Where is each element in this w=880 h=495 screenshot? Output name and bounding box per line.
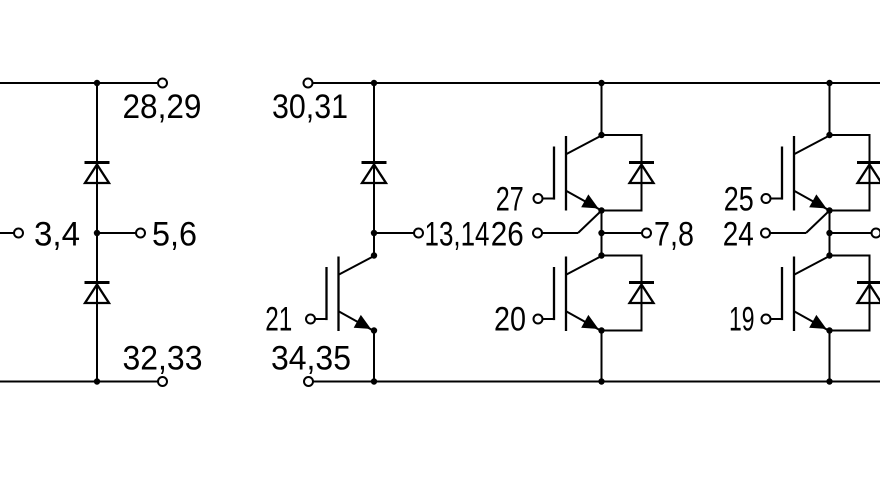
node mid phase junction [598, 230, 604, 236]
diode D7 (right lower freewheel) [857, 283, 880, 304]
wire right leg vertical top [829, 83, 831, 135]
wire stub right midpoint to edge terminal [830, 232, 872, 234]
wire right bottom diode branch [830, 256, 870, 331]
wire left leg vertical [96, 83, 98, 382]
diode D2 (left leg lower) [85, 283, 110, 304]
node mid bottom junction [598, 378, 604, 384]
node right collector-top junction [826, 132, 832, 138]
svg-text:27: 27 [496, 181, 524, 219]
wire stub terminal 3,4 [0, 232, 14, 234]
terminal 34,35 [304, 377, 313, 386]
svg-text:30,31: 30,31 [272, 88, 348, 126]
node right emitter-top junction [826, 207, 832, 213]
IGBT Q1 brake (gate 21) [306, 256, 374, 331]
terminal 30,31 [304, 79, 313, 88]
node mid top junction [598, 80, 604, 86]
diode D6 (right upper freewheel) [857, 163, 880, 184]
IGBT Q3 mid bottom (gate 20) [534, 256, 602, 331]
node brake mid junction 13,14 [371, 230, 377, 236]
node brake top junction [371, 80, 377, 86]
svg-text:20: 20 [494, 301, 526, 339]
wire brake leg vertical lower [373, 331, 375, 382]
node mid emitter-bottom junction [598, 327, 604, 333]
node left-leg bottom junction [94, 378, 100, 384]
IGBT Q4 right top (gate 25) [762, 136, 830, 211]
node right top junction [826, 80, 832, 86]
svg-text:7,8: 7,8 [654, 216, 694, 254]
terminal 28,29 [158, 79, 167, 88]
IGBT Q2 mid top (gate 27) [534, 136, 602, 211]
svg-text:28,29: 28,29 [123, 88, 202, 126]
diode D1 (left leg upper) [85, 163, 110, 184]
diode D4 (mid upper freewheel) [629, 163, 654, 184]
node right bottom junction [826, 378, 832, 384]
node mid collector-top junction [598, 132, 604, 138]
svg-text:13,14: 13,14 [425, 216, 490, 254]
wire mid leg vertical bottom [601, 331, 603, 382]
wire right leg vertical middle [829, 211, 831, 256]
terminal right phase (edge) [872, 229, 880, 238]
svg-text:34,35: 34,35 [271, 340, 351, 378]
terminal 7,8 [642, 229, 651, 238]
kelvin-emitter lead 24 [761, 212, 829, 238]
svg-text:24: 24 [723, 216, 754, 254]
kelvin-emitter lead 26 [533, 212, 601, 238]
svg-text:3,4: 3,4 [34, 216, 80, 254]
wire top rail (+) from terminal 30,31 [313, 82, 880, 84]
node brake collector junction [371, 252, 377, 258]
wire stub node to terminal 5,6 [97, 232, 136, 234]
terminal 13,14 [414, 229, 423, 238]
node right emitter-bottom junction [826, 327, 832, 333]
terminal 5,6 [136, 229, 145, 238]
svg-text:26: 26 [491, 216, 524, 254]
wire top-left rail to terminal 28,29 [0, 82, 158, 84]
node brake emitter junction [371, 327, 377, 333]
wire brake leg vertical upper [373, 83, 375, 256]
terminal 32,33 [158, 377, 167, 386]
node left-leg top junction [94, 80, 100, 86]
wire bottom-left rail to terminal 32,33 [0, 381, 158, 383]
wire mid top diode branch [602, 135, 642, 211]
wire right leg vertical bottom [829, 331, 831, 382]
diode D5 (mid lower freewheel) [629, 283, 654, 304]
node right collector-bottom junction [826, 252, 832, 258]
IGBT Q5 right bottom (gate 19) [762, 256, 830, 331]
node brake bottom junction [371, 378, 377, 384]
node left-leg mid junction [94, 230, 100, 236]
node mid emitter-top junction [598, 207, 604, 213]
terminal 3,4 [14, 229, 23, 238]
wire mid leg vertical top [601, 83, 603, 135]
svg-text:19: 19 [729, 301, 755, 339]
wire right top diode branch [830, 135, 870, 211]
svg-text:21: 21 [265, 301, 292, 339]
node right phase junction [826, 230, 832, 236]
svg-text:25: 25 [724, 181, 754, 219]
svg-text:32,33: 32,33 [123, 340, 203, 378]
wire bottom rail (-) from terminal 34,35 [313, 381, 880, 383]
wire stub midpoint to terminal 7,8 [602, 232, 643, 234]
svg-text:5,6: 5,6 [152, 216, 197, 254]
diode D3 (brake leg) [362, 163, 387, 184]
wire mid leg vertical middle [601, 211, 603, 256]
wire mid bottom diode branch [602, 256, 642, 331]
node mid collector-bottom junction [598, 252, 604, 258]
wire stub node to terminal 13,14 [374, 232, 414, 234]
